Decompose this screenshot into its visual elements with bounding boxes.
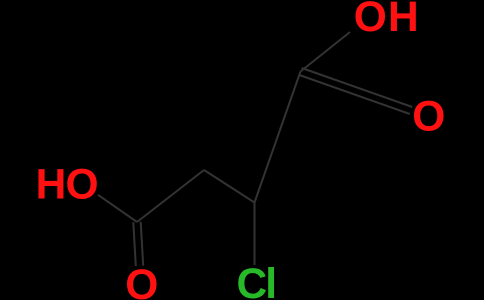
svg-text:O: O (125, 262, 158, 300)
svg-text:Cl: Cl (237, 261, 276, 300)
svg-text:OH: OH (354, 0, 420, 41)
svg-text:O: O (412, 93, 445, 140)
svg-text:HO: HO (36, 161, 98, 208)
